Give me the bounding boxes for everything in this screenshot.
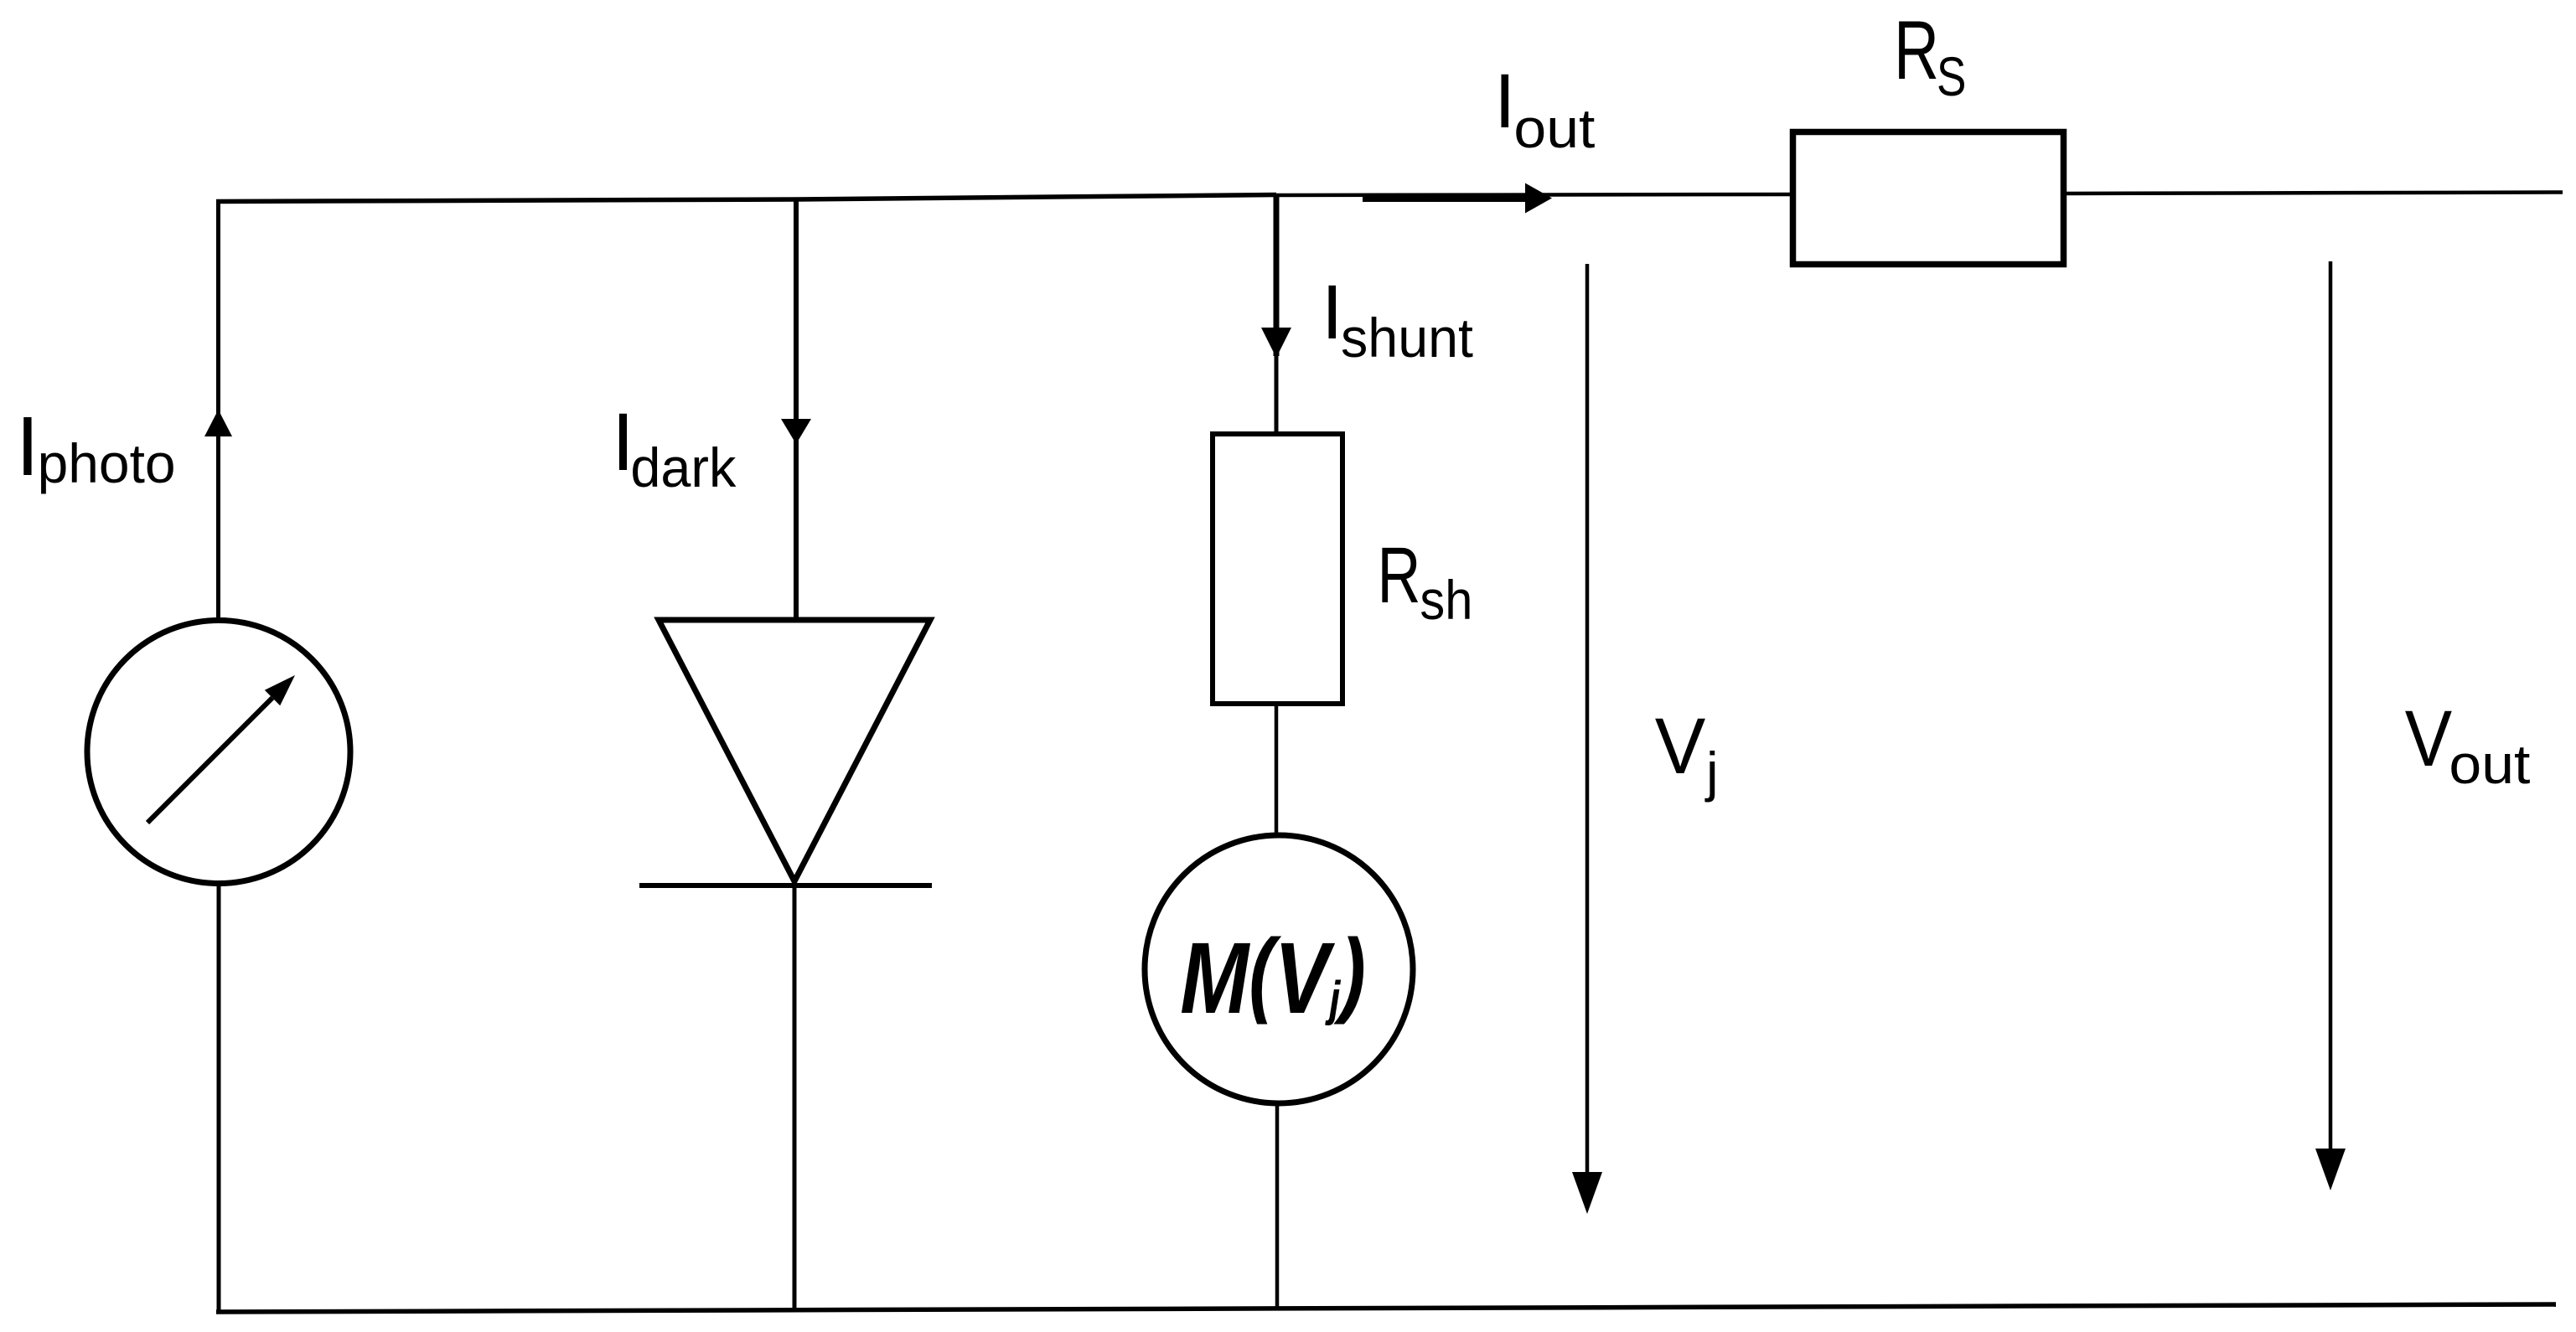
svg-text:sh: sh	[1420, 569, 1472, 631]
wire top left segment	[216, 195, 1276, 202]
wire top middle segment	[1276, 194, 1794, 195]
label Iout	[1494, 59, 1595, 159]
arrow Iout	[1363, 183, 1552, 214]
label Vout	[2405, 694, 2531, 795]
wire left bottom vertical	[217, 884, 221, 1311]
svg-text:out: out	[2449, 733, 2530, 795]
arrowhead Idark	[781, 419, 811, 444]
multiplier source M(Vj)	[1145, 835, 1413, 1103]
wire Idark vertical	[794, 198, 799, 621]
svg-text:V: V	[1655, 702, 1706, 791]
wire bottom	[216, 1304, 2556, 1312]
svg-text:shunt: shunt	[1341, 307, 1473, 369]
wire diode bottom vertical	[793, 885, 797, 1312]
label Vj	[1655, 702, 1719, 803]
arrowhead Ishunt	[1261, 328, 1291, 358]
arrow Vj	[1572, 264, 1602, 1214]
svg-text:I: I	[16, 400, 39, 493]
label RS	[1894, 3, 1966, 107]
svg-text:S: S	[1937, 45, 1966, 107]
svg-text:photo: photo	[38, 432, 176, 494]
wire M to bottom	[1275, 1103, 1280, 1309]
label Rsh	[1378, 531, 1473, 631]
resistor Rsh	[1213, 434, 1342, 704]
wire top right segment	[2064, 193, 2563, 194]
svg-text:j: j	[1704, 741, 1719, 803]
svg-text:R: R	[1894, 3, 1939, 96]
label Iphoto	[16, 400, 176, 494]
svg-text:V: V	[2405, 694, 2452, 783]
current source Iphoto	[87, 621, 350, 884]
svg-text:out: out	[1513, 97, 1595, 159]
resistor RS	[1793, 132, 2064, 265]
label Ishunt	[1322, 270, 1473, 369]
wire Rsh to M	[1275, 704, 1279, 836]
wire Ishunt vertical	[1274, 196, 1280, 436]
svg-text:R: R	[1378, 531, 1421, 620]
svg-text:I: I	[1494, 59, 1516, 144]
diode D1 triangle	[659, 620, 930, 881]
wire left vertical	[216, 199, 220, 620]
label Idark	[612, 396, 737, 498]
svg-text:I: I	[1322, 270, 1343, 355]
diode D1 cathode bar	[639, 883, 932, 888]
arrow Vout	[2315, 261, 2346, 1190]
arrowhead Iphoto	[204, 410, 232, 436]
svg-text:dark: dark	[630, 436, 737, 498]
